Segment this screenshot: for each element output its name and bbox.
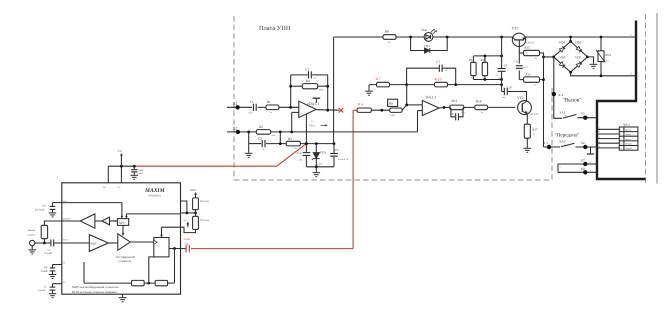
svg-text:С4: С4: [297, 151, 301, 155]
svg-text:усилитель: усилитель: [118, 259, 132, 263]
svg-text:МЦУ-масштабирующий усилитель: МЦУ-масштабирующий усилитель: [72, 285, 119, 289]
svg-text:КТ361Г: КТ361Г: [526, 41, 535, 44]
svg-text:VD1: VD1: [320, 151, 327, 155]
svg-text:С2: С2: [63, 281, 66, 284]
svg-text:R12: R12: [469, 58, 475, 62]
svg-text:1: 1: [592, 114, 593, 117]
svg-text:Х2: Х2: [233, 126, 238, 130]
svg-text:SA2: SA2: [560, 140, 566, 144]
svg-text:АРУ: АРУ: [119, 221, 126, 225]
svg-text:1: 1: [599, 127, 600, 130]
svg-text:VD7: VD7: [575, 56, 582, 60]
svg-text:Х8: Х8: [581, 167, 585, 171]
svg-text:R17: R17: [533, 127, 539, 131]
svg-text:100к: 100к: [390, 114, 396, 117]
svg-text:R8: R8: [385, 29, 389, 33]
svg-text:Плата УПН: Плата УПН: [259, 25, 291, 32]
svg-text:0,1мкФ: 0,1мкФ: [44, 252, 52, 255]
svg-text:КТ315Г: КТ315Г: [531, 113, 540, 116]
svg-text:5: 5: [599, 145, 600, 148]
svg-text:2,2кОм: 2,2кОм: [27, 234, 35, 237]
svg-text:Вызов: Вызов: [625, 138, 631, 141]
svg-text:2,2мкФ: 2,2мкФ: [38, 289, 46, 292]
svg-text:2: 2: [599, 131, 600, 134]
svg-text:Х7: Х7: [581, 158, 585, 162]
svg-text:Х6: Х6: [581, 141, 585, 145]
svg-text:0,47мкФ: 0,47мкФ: [35, 209, 44, 212]
svg-text:С2: С2: [258, 136, 262, 140]
svg-text:СМ: СМ: [103, 221, 106, 224]
svg-text:МСВАС: МСВАС: [63, 217, 71, 220]
svg-text:2: 2: [620, 133, 621, 136]
svg-text:10к: 10к: [470, 77, 473, 80]
svg-text:R2: R2: [259, 125, 263, 129]
svg-text:SA1: SA1: [560, 110, 566, 114]
svg-text:2: 2: [560, 166, 561, 169]
svg-text:Обратн: Обратн: [625, 147, 633, 150]
svg-text:RU1: RU1: [605, 53, 611, 57]
svg-text:"Передача": "Передача": [555, 133, 580, 139]
svg-text:R11: R11: [452, 99, 458, 103]
svg-text:К50-6-4,7В: К50-6-4,7В: [338, 158, 349, 161]
svg-text:R15: R15: [525, 46, 531, 50]
svg-text:R1: R1: [267, 100, 271, 104]
svg-text:DA1.2: DA1.2: [426, 94, 437, 99]
svg-text:VD5: VD5: [559, 56, 566, 60]
svg-text:Rмикр: Rмикр: [28, 229, 36, 232]
svg-text:"Вызов": "Вызов": [563, 97, 582, 103]
svg-text:Х 4: Х 4: [558, 93, 563, 97]
svg-text:1: 1: [424, 105, 425, 108]
svg-text:С11: С11: [514, 59, 519, 63]
svg-text:47мкФ: 47мкФ: [41, 270, 48, 273]
svg-text:Сф: Сф: [44, 266, 48, 269]
svg-text:VD2: VD2: [421, 28, 428, 32]
svg-text:√16В: √16В: [497, 77, 502, 80]
svg-text:С1: С1: [250, 100, 254, 104]
svg-text:10к: 10к: [534, 57, 537, 60]
svg-text:=DA1.1: =DA1.1: [307, 102, 319, 106]
svg-text:Лампа: Лампа: [625, 133, 631, 136]
svg-text:+V7: +V7: [317, 162, 323, 166]
svg-text:МАХ9814: МАХ9814: [149, 195, 162, 198]
svg-text:Х 3: Х 3: [543, 141, 548, 145]
svg-text:Общий: Общий: [625, 143, 633, 146]
svg-text:МЦУ: МЦУ: [90, 242, 97, 245]
svg-text:С7: С7: [436, 60, 440, 64]
svg-text:ХР 1: ХР 1: [623, 123, 630, 127]
svg-text:R3: R3: [288, 137, 292, 141]
svg-text:1мк: 1мк: [184, 243, 189, 246]
svg-text:R14: R14: [476, 100, 482, 104]
svg-text:300к: 300к: [319, 89, 325, 92]
svg-text:Х5: Х5: [581, 112, 585, 116]
svg-text:VD4: VD4: [559, 41, 566, 45]
svg-text:4: 4: [599, 140, 600, 143]
svg-text:VT1: VT1: [512, 27, 519, 31]
svg-text:VD3: VD3: [424, 44, 431, 48]
svg-text:С10: С10: [507, 86, 513, 90]
svg-text:R 10: R 10: [435, 77, 442, 81]
svg-text:Vп: Vп: [118, 149, 122, 153]
svg-text:SD: SD: [103, 186, 106, 189]
svg-text:R13: R13: [481, 58, 487, 62]
svg-text:+Vcc: +Vcc: [309, 123, 316, 127]
svg-text:3: 3: [599, 136, 600, 139]
svg-text:R9: R9: [389, 102, 393, 106]
svg-text:МАХIМ: МАХIМ: [144, 188, 166, 194]
svg-text:С3: С3: [305, 68, 309, 72]
svg-text:R 6: R 6: [358, 103, 363, 107]
svg-text:1: 1: [620, 129, 621, 132]
svg-text:1к: 1к: [534, 83, 536, 86]
svg-text:Вызов: Вызов: [625, 129, 631, 132]
svg-text:М0,047: М0,047: [523, 66, 529, 69]
svg-text:R4: R4: [306, 79, 310, 83]
svg-text:750 кОм: 750 кОм: [200, 200, 210, 203]
svg-text:ПВЯС: ПВЯС: [138, 169, 144, 172]
svg-text:МСВ: МСВ: [63, 239, 68, 242]
svg-text:ВЗВС: ВЗВС: [190, 189, 197, 192]
svg-text:Сout: Сout: [184, 237, 190, 241]
svg-text:С9: С9: [504, 64, 508, 68]
svg-text:Х1: Х1: [233, 102, 238, 106]
svg-text:С1: С1: [63, 262, 66, 265]
svg-text:С5: С5: [335, 148, 339, 152]
svg-text:ИОН-источник опорных напряж.: ИОН-источник опорных напряж.: [72, 290, 116, 294]
svg-text:R16: R16: [526, 73, 532, 77]
svg-text:VD6: VD6: [575, 41, 582, 45]
svg-text:VT2: VT2: [517, 96, 524, 100]
svg-text:R 7: R 7: [376, 77, 381, 81]
svg-text:750 кОм: 750 кОм: [200, 219, 210, 222]
